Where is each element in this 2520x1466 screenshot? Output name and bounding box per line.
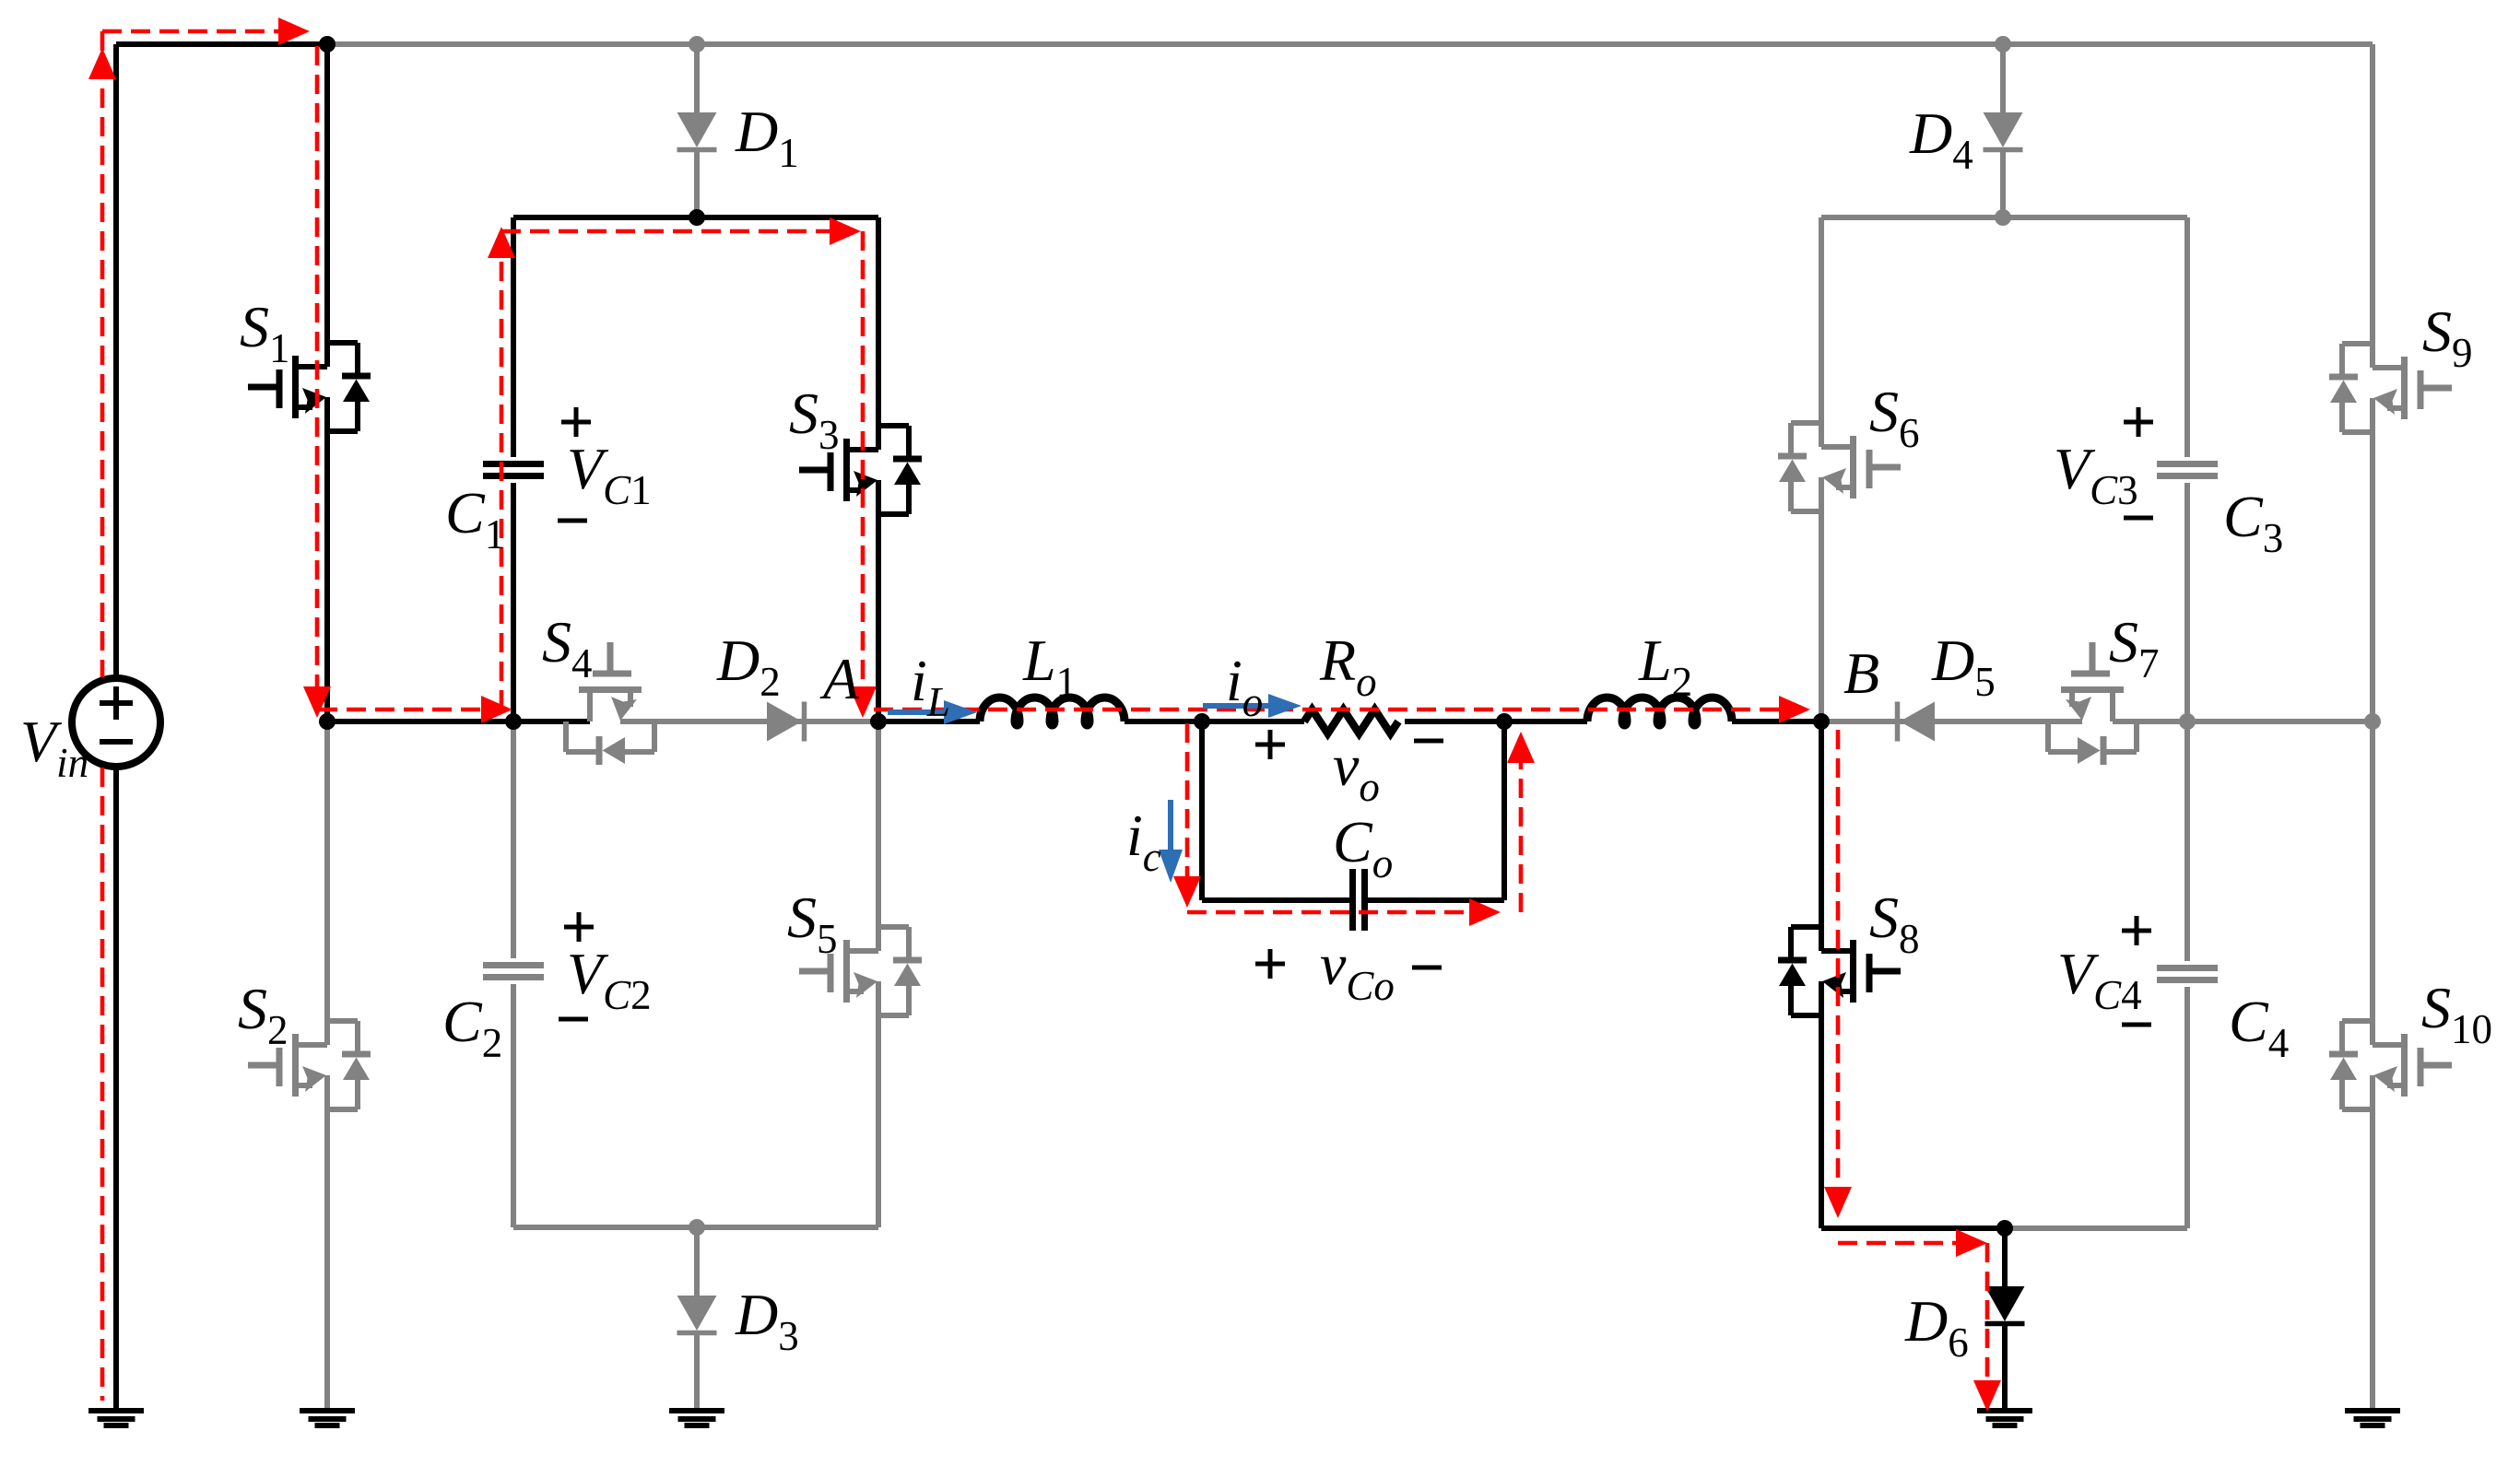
svg-text:B: B xyxy=(1843,640,1879,706)
svg-text:A: A xyxy=(819,646,860,711)
